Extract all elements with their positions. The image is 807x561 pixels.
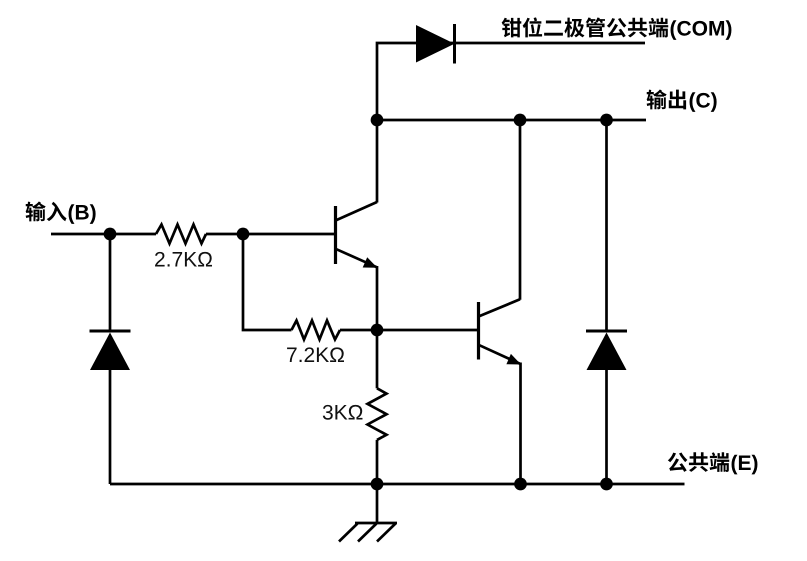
wire D2 to common rail: [109, 369, 112, 484]
transistor Q2: [479, 299, 522, 364]
wire input to R1: [51, 233, 156, 236]
wire D3 to common rail: [605, 369, 608, 484]
wire R1 to Q1 base: [206, 233, 336, 236]
wire Q2 collector up: [519, 120, 522, 300]
wire R2 to Q2 base: [340, 329, 479, 332]
label 输入(B): [26, 202, 96, 224]
wire common rail (E): [110, 483, 685, 486]
node common/R3-ground junction: [371, 478, 384, 491]
wire Q2 emitter down: [519, 363, 522, 485]
value label 3KΩ: [323, 405, 363, 420]
value label 7.2KΩ: [287, 347, 344, 362]
resistor R3 3KΩ: [368, 388, 387, 440]
node R1/R2 junction: [237, 228, 250, 241]
label 钳位二极管公共端(COM): [502, 17, 732, 40]
diode D2 (input clamp diode): [90, 331, 131, 370]
wire input junction down to D2: [109, 234, 112, 332]
wire output junction down to D3: [605, 120, 608, 332]
node output/Q2-collector junction: [514, 114, 527, 127]
diode D1 (clamp diode to COM): [416, 24, 455, 64]
label 公共端(E): [668, 452, 758, 474]
node input/D2 junction: [104, 228, 117, 241]
value label 2.7KΩ: [155, 252, 212, 267]
node output/Q1-collector junction: [371, 114, 384, 127]
resistor R1 2.7KΩ: [156, 225, 206, 244]
transistor Q1: [336, 202, 378, 268]
wire R3 to ground rail: [376, 440, 379, 484]
node common/D3 junction: [600, 478, 613, 491]
node output/D3 junction: [600, 114, 613, 127]
wire Q1 collector up: [376, 120, 379, 203]
diode D3 (output clamp diode): [586, 331, 627, 370]
node Q1-emitter/R2/R3/Q2-base junction: [371, 324, 384, 337]
wire COM rail (top): [377, 43, 645, 120]
node common/Q2-emitter junction: [514, 478, 527, 491]
wire output rail: [377, 119, 646, 122]
label 输出(C): [647, 90, 717, 112]
wire R1-junction down and to R2: [243, 234, 292, 330]
wire Q1 emitter down: [376, 266, 379, 330]
resistor R2 7.2KΩ: [292, 321, 341, 340]
wire junction to R3: [376, 330, 379, 388]
ground: [339, 484, 397, 542]
